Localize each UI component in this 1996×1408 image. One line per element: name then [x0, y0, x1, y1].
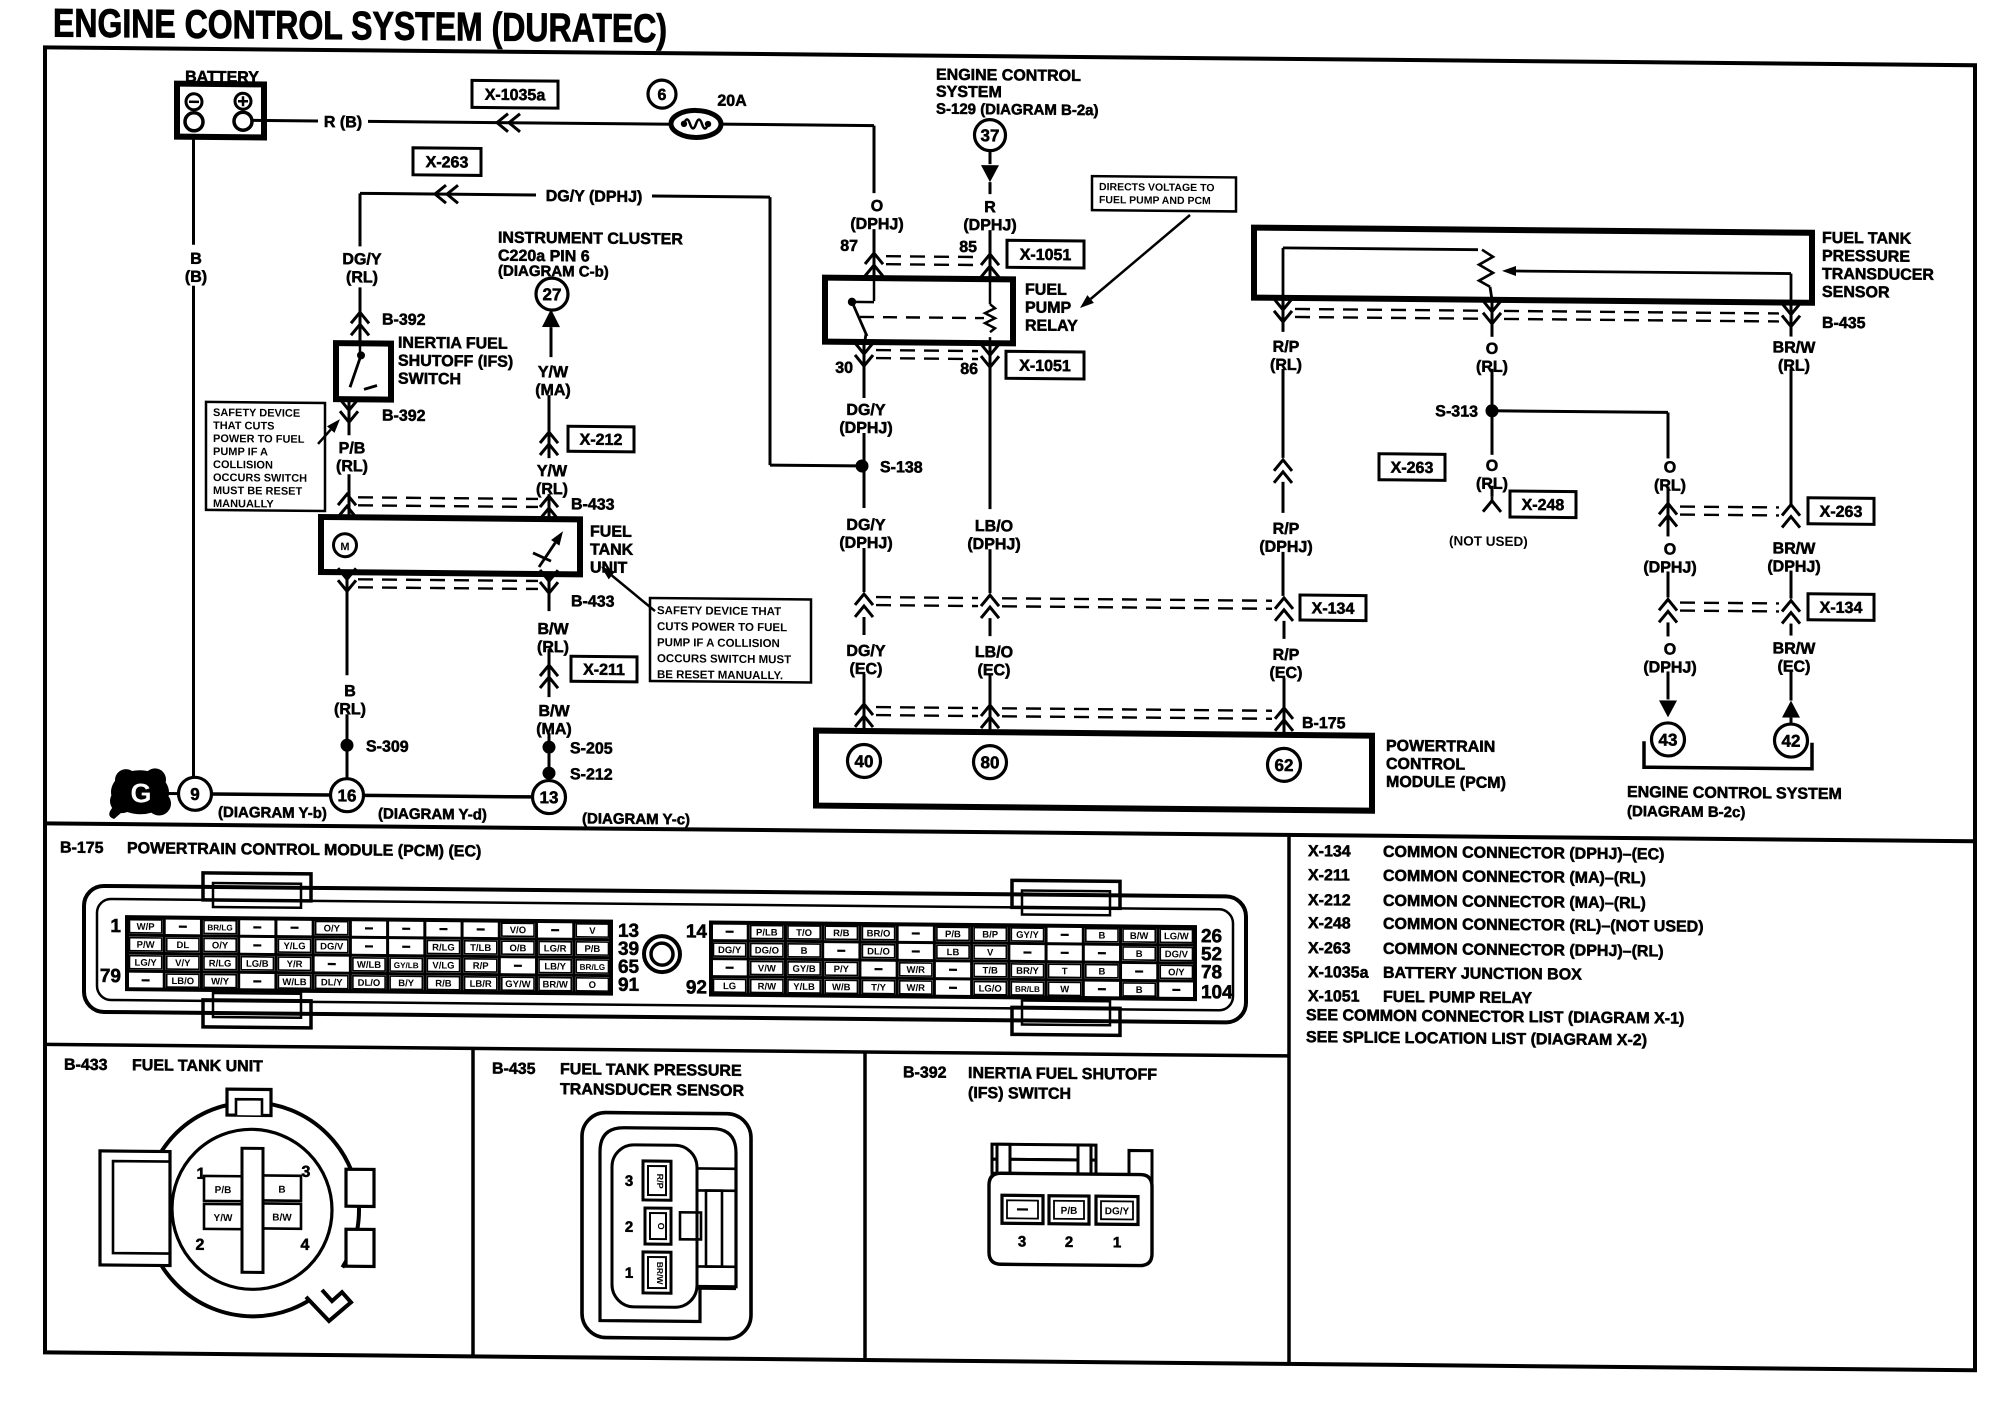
svg-text:DIRECTS VOLTAGE TO: DIRECTS VOLTAGE TO [1099, 181, 1215, 194]
divider below PCM pinout section [45, 1044, 1289, 1056]
svg-text:(DIAGRAM Y-d): (DIAGRAM Y-d) [378, 805, 487, 823]
svg-text:LB/R: LB/R [470, 979, 492, 990]
fuel tank unit box [321, 517, 580, 574]
wire label BR/W (EC) [1790, 624, 1793, 636]
svg-text:B-433: B-433 [571, 496, 615, 513]
svg-text:LG/W: LG/W [1164, 931, 1189, 942]
svg-text:43: 43 [1659, 730, 1678, 749]
svg-text:X-1051: X-1051 [1019, 358, 1071, 375]
svg-text:GY/Y: GY/Y [1016, 930, 1039, 941]
B-433 terminal Y/W [204, 1204, 242, 1229]
connector arrows X-1051 below relay [863, 342, 866, 398]
svg-text:GY/LB: GY/LB [394, 961, 419, 970]
B-392 terminal 1 DG/Y [1096, 1196, 1138, 1224]
dashed tie B-435 [1295, 309, 1480, 311]
svg-text:CUTS POWER TO FUEL: CUTS POWER TO FUEL [657, 621, 787, 634]
svg-text:TANK: TANK [590, 541, 634, 558]
callout: safety device note (left) [206, 402, 325, 511]
svg-text:O: O [1664, 459, 1676, 476]
svg-text:INSTRUMENT CLUSTER: INSTRUMENT CLUSTER [498, 230, 683, 249]
svg-text:POWERTRAIN CONTROL MODULE (PCM: POWERTRAIN CONTROL MODULE (PCM) (EC) [127, 840, 481, 860]
svg-text:(DPHJ): (DPHJ) [1767, 558, 1820, 575]
svg-text:B-435: B-435 [492, 1061, 536, 1078]
B-392 terminal 2 P/B [1049, 1196, 1089, 1224]
svg-text:COMMON CONNECTOR (MA)–(RL): COMMON CONNECTOR (MA)–(RL) [1383, 893, 1646, 912]
svg-text:V/O: V/O [510, 925, 526, 936]
label box X-1035a [472, 80, 558, 108]
splice S-205 [543, 741, 556, 754]
PCM connector top-right tab [1012, 880, 1120, 908]
svg-text:BR/W: BR/W [542, 979, 567, 990]
svg-text:X-211: X-211 [1308, 867, 1350, 884]
svg-text:B: B [344, 683, 356, 700]
engine control system pin circle 42 [1775, 724, 1808, 757]
B-433 right tabs [346, 1169, 374, 1206]
svg-text:X-263: X-263 [1820, 504, 1863, 521]
svg-text:R/W: R/W [758, 981, 776, 992]
ground connector circle 13 [533, 780, 566, 813]
svg-text:GY/W: GY/W [505, 979, 530, 990]
connector arrows X-212 [540, 432, 558, 443]
battery B+ B- symbol [177, 84, 264, 138]
svg-text:BR/W: BR/W [655, 1262, 665, 1286]
svg-text:BR/W: BR/W [1773, 540, 1817, 557]
svg-text:BR/W: BR/W [1773, 339, 1817, 356]
svg-text:(RL): (RL) [537, 639, 569, 656]
svg-text:SYSTEM: SYSTEM [936, 84, 1002, 102]
connector arrows B-435 below sensor [1282, 298, 1285, 332]
svg-text:S-129 (DIAGRAM B-2a): S-129 (DIAGRAM B-2a) [936, 101, 1099, 120]
svg-text:DG/Y: DG/Y [846, 517, 885, 534]
branch wire S-313 to O column [1492, 411, 1668, 413]
arrow from source down [989, 151, 992, 164]
svg-text:27: 27 [543, 285, 562, 304]
svg-text:W/LB: W/LB [282, 977, 306, 988]
svg-text:M: M [340, 541, 349, 553]
svg-text:62: 62 [1275, 756, 1294, 775]
svg-text:B/W: B/W [538, 703, 570, 720]
svg-text:(DPHJ): (DPHJ) [1643, 659, 1696, 676]
svg-text:91: 91 [618, 975, 640, 996]
connector arrows X-263 on DG/Y wire [435, 185, 446, 203]
svg-text:O: O [1664, 641, 1676, 658]
svg-text:SENSOR: SENSOR [1822, 284, 1890, 302]
svg-text:V: V [987, 948, 994, 959]
dashed connector tie B-433 top [358, 497, 538, 499]
svg-text:Y/W: Y/W [214, 1213, 233, 1224]
svg-text:DL/O: DL/O [867, 946, 890, 957]
svg-text:W/LB: W/LB [357, 960, 381, 971]
svg-text:B: B [1098, 967, 1105, 978]
svg-text:T/LB: T/LB [470, 943, 491, 954]
svg-text:B/W: B/W [272, 1213, 292, 1224]
svg-text:92: 92 [686, 977, 707, 998]
PCM connector bottom-left tab [203, 1000, 311, 1028]
label box X-263 top [413, 148, 481, 176]
svg-text:G: G [130, 778, 151, 808]
svg-text:LB/O: LB/O [171, 976, 194, 987]
svg-text:LG/R: LG/R [544, 943, 567, 954]
svg-text:1: 1 [625, 1265, 633, 1282]
svg-text:6: 6 [658, 87, 667, 104]
connector arrows X-134 pair right [1659, 599, 1677, 610]
callout arrow to relay [1091, 214, 1190, 300]
svg-text:MANUALLY: MANUALLY [213, 498, 274, 511]
svg-text:SHUTOFF (IFS): SHUTOFF (IFS) [398, 353, 513, 371]
svg-text:B: B [190, 251, 202, 268]
svg-text:FUEL PUMP AND PCM: FUEL PUMP AND PCM [1099, 194, 1211, 207]
svg-text:3: 3 [302, 1164, 311, 1181]
svg-text:FUEL TANK: FUEL TANK [1822, 230, 1912, 248]
svg-text:T/O: T/O [796, 928, 812, 939]
svg-text:OCCURS SWITCH MUST: OCCURS SWITCH MUST [657, 653, 791, 666]
svg-text:B-175: B-175 [60, 840, 104, 857]
svg-text:O/Y: O/Y [212, 940, 229, 951]
divider below wiring section [45, 823, 1975, 841]
svg-text:MUST BE RESET: MUST BE RESET [213, 485, 303, 498]
svg-text:B: B [278, 1185, 285, 1196]
svg-text:1: 1 [110, 916, 121, 937]
splice S-309 [341, 739, 354, 752]
svg-text:R/P: R/P [655, 1174, 665, 1189]
wire label R/P (EC) [1283, 621, 1286, 639]
svg-text:R/B: R/B [833, 928, 849, 939]
dashed tie X-1051 bottom [876, 349, 978, 352]
svg-text:T/Y: T/Y [871, 982, 886, 993]
svg-text:(DPHJ): (DPHJ) [1259, 539, 1312, 556]
svg-text:(DPHJ): (DPHJ) [850, 216, 903, 233]
svg-text:(EC): (EC) [978, 662, 1011, 679]
svg-text:P/B: P/B [945, 929, 961, 940]
svg-text:X-263: X-263 [426, 154, 469, 171]
svg-text:PUMP IF A: PUMP IF A [213, 446, 268, 459]
svg-text:O: O [1664, 541, 1676, 558]
callout: safety device note (right) [650, 598, 811, 682]
svg-text:RELAY: RELAY [1025, 317, 1078, 334]
svg-text:B: B [1136, 985, 1143, 996]
label box X-134 [1300, 595, 1366, 621]
svg-text:S-309: S-309 [366, 738, 409, 755]
svg-text:(EC): (EC) [1270, 665, 1303, 682]
splice S-138 [856, 459, 869, 472]
svg-text:R/P: R/P [1273, 339, 1300, 356]
B-433 left mount tab [100, 1151, 170, 1266]
svg-text:TRANSDUCER SENSOR: TRANSDUCER SENSOR [560, 1081, 744, 1100]
svg-text:R: R [984, 199, 996, 216]
svg-text:80: 80 [981, 753, 1000, 772]
connector arrows B-433 below fuel tank unit [346, 572, 349, 675]
B-433 terminal P/B [204, 1176, 242, 1201]
ground rail wire [212, 794, 330, 795]
arrow up from circle 42 [1782, 700, 1800, 717]
ground connector circle 9 [179, 777, 212, 810]
svg-text:R/LG: R/LG [209, 958, 232, 969]
svg-text:B-392: B-392 [382, 408, 426, 425]
svg-text:COLLISION: COLLISION [213, 459, 273, 472]
wire battery negative to ground: B (B) [192, 137, 195, 245]
svg-text:B: B [1098, 931, 1105, 942]
svg-text:ENGINE CONTROL SYSTEM (DURATEC: ENGINE CONTROL SYSTEM (DURATEC) [53, 1, 667, 51]
svg-text:DG/Y: DG/Y [1105, 1206, 1130, 1217]
svg-text:BR/O: BR/O [867, 928, 891, 939]
wire label LB/O (EC) [989, 618, 992, 636]
svg-text:W/R: W/R [907, 965, 926, 976]
svg-text:LG/Y: LG/Y [135, 958, 158, 969]
svg-text:INERTIA FUEL: INERTIA FUEL [398, 335, 508, 353]
svg-text:OCCURS SWITCH: OCCURS SWITCH [213, 472, 307, 485]
svg-text:B-433: B-433 [571, 593, 615, 610]
svg-text:O/Y: O/Y [1168, 967, 1185, 978]
svg-text:BE RESET MANUALLY.: BE RESET MANUALLY. [657, 669, 783, 682]
svg-text:30: 30 [835, 360, 853, 377]
label box X-134 right [1808, 594, 1874, 621]
wire DG/Y (RL) down to IFS switch [359, 193, 362, 246]
svg-text:S-313: S-313 [1435, 403, 1478, 420]
svg-text:V/W: V/W [758, 963, 776, 974]
fuel level sender symbol [539, 543, 555, 568]
svg-text:SEE SPLICE LOCATION LIST (DIA: SEE SPLICE LOCATION LIST (DIAGRAM X-2) [1306, 1029, 1647, 1049]
B-435 connector drawing outer [582, 1112, 751, 1339]
svg-text:B/P: B/P [982, 929, 998, 940]
svg-text:COMMON CONNECTOR (DPHJ)–(RL): COMMON CONNECTOR (DPHJ)–(RL) [1383, 941, 1664, 961]
PCM connector bolt circle [644, 936, 680, 972]
svg-text:2: 2 [625, 1219, 633, 1236]
svg-text:(IFS) SWITCH: (IFS) SWITCH [968, 1085, 1071, 1103]
svg-text:(DIAGRAM Y-b): (DIAGRAM Y-b) [218, 804, 327, 822]
svg-text:LB/O: LB/O [975, 644, 1013, 661]
svg-text:(RL): (RL) [536, 481, 568, 498]
connector arrows X-1035a on R(B) wire [497, 114, 508, 132]
svg-text:V/Y: V/Y [175, 958, 191, 969]
svg-text:P/Y: P/Y [834, 964, 850, 975]
B-435 latch features [697, 1167, 736, 1170]
svg-text:INERTIA FUEL SHUTOFF: INERTIA FUEL SHUTOFF [968, 1065, 1157, 1084]
svg-text:B/Y: B/Y [398, 978, 414, 989]
svg-text:(RL): (RL) [336, 458, 368, 475]
fuse circuit number circle 6 [648, 80, 676, 108]
svg-text:(NOT USED): (NOT USED) [1449, 533, 1528, 549]
fuel tank pressure transducer sensor box [1254, 228, 1812, 303]
svg-text:COMMON CONNECTOR (MA)–(RL): COMMON CONNECTOR (MA)–(RL) [1383, 868, 1646, 887]
svg-text:Y/R: Y/R [287, 959, 303, 970]
PCM connector top-left tab [203, 873, 311, 901]
svg-text:B-175: B-175 [1302, 715, 1346, 732]
svg-text:P/B: P/B [215, 1185, 232, 1196]
svg-text:W/P: W/P [137, 922, 156, 933]
svg-text:X-134: X-134 [1820, 600, 1863, 617]
svg-text:(B): (B) [185, 269, 207, 286]
svg-text:PUMP: PUMP [1025, 299, 1072, 316]
label box X-263 right [1808, 498, 1874, 525]
label box X-248 [1510, 491, 1576, 518]
svg-text:(RL): (RL) [1778, 357, 1810, 374]
svg-text:SWITCH: SWITCH [398, 371, 461, 389]
svg-text:(DIAGRAM B-2c): (DIAGRAM B-2c) [1627, 803, 1745, 821]
svg-text:(RL): (RL) [334, 701, 366, 718]
svg-text:P/B: P/B [584, 944, 600, 955]
B-433 connector drawing [100, 1088, 374, 1322]
svg-text:THAT CUTS: THAT CUTS [213, 420, 275, 433]
svg-text:78: 78 [1201, 962, 1222, 983]
connector arrows B-392 below IFS switch [348, 399, 351, 435]
svg-text:DL/O: DL/O [358, 978, 381, 989]
svg-text:B-392: B-392 [382, 312, 426, 329]
svg-text:MODULE (PCM): MODULE (PCM) [1386, 774, 1506, 792]
svg-text:3: 3 [625, 1173, 633, 1190]
bracket under 43/42 [1644, 741, 1812, 769]
svg-text:40: 40 [855, 752, 874, 771]
svg-text:O: O [871, 198, 883, 215]
wire ground to connector 9 [167, 792, 179, 795]
svg-text:V: V [589, 926, 596, 937]
connector arrows X-134 on PCM wires [855, 594, 873, 605]
splice S-212 [543, 767, 556, 780]
svg-text:(EC): (EC) [1778, 658, 1811, 675]
B-433 top key tab [227, 1089, 271, 1115]
svg-text:DL: DL [177, 940, 190, 951]
label box X-1051 top [1007, 240, 1084, 268]
svg-text:X-1035a: X-1035a [1308, 964, 1369, 982]
svg-text:DG/O: DG/O [755, 945, 779, 956]
svg-text:X-263: X-263 [1308, 940, 1351, 957]
bottom section divider 2 [863, 1052, 867, 1360]
svg-text:R/LG: R/LG [432, 942, 455, 953]
ground symbol G [109, 768, 171, 820]
svg-text:(DPHJ): (DPHJ) [967, 536, 1020, 553]
connector arrows B-392 above IFS switch [351, 312, 369, 323]
svg-text:T: T [1062, 966, 1068, 977]
svg-text:1: 1 [1113, 1234, 1121, 1251]
B-435 connector middle shell [600, 1128, 736, 1322]
svg-text:ENGINE CONTROL: ENGINE CONTROL [936, 67, 1081, 85]
label box X-211 [571, 656, 637, 682]
engine control system pin circle 43 [1652, 723, 1685, 756]
svg-text:(DPHJ): (DPHJ) [839, 535, 892, 552]
svg-text:4: 4 [301, 1237, 310, 1254]
svg-text:X-1051: X-1051 [1020, 247, 1072, 264]
wire label DG/Y (EC) [863, 617, 866, 635]
svg-text:LG/B: LG/B [246, 959, 269, 970]
B-435 pin 2 terminal O [645, 1208, 671, 1244]
svg-text:14: 14 [686, 921, 708, 942]
fuel pump motor M symbol [334, 534, 357, 557]
svg-text:2: 2 [1065, 1234, 1073, 1251]
svg-text:85: 85 [959, 239, 977, 256]
dashed connector tie B-433 bottom [358, 579, 538, 581]
svg-text:B-392: B-392 [903, 1064, 947, 1081]
ground connector circle 16 [331, 779, 364, 812]
inertia fuel shutoff switch box [336, 343, 391, 400]
svg-text:B: B [801, 946, 808, 957]
connector arrows B-433 above fuel tank unit [338, 494, 356, 505]
svg-text:DG/V: DG/V [320, 941, 344, 952]
callout: directs voltage to fuel pump and pcm [1092, 176, 1236, 211]
wire branch down to S-138 [769, 197, 772, 465]
svg-text:B/W: B/W [537, 621, 569, 638]
svg-text:DL/Y: DL/Y [321, 977, 343, 988]
sensor potentiometer symbol [1282, 248, 1285, 298]
connector arrows X-1051 above relay [865, 253, 883, 264]
svg-text:ENGINE CONTROL SYSTEM: ENGINE CONTROL SYSTEM [1627, 784, 1842, 803]
svg-text:DG/V: DG/V [1165, 949, 1189, 960]
svg-text:CONTROL: CONTROL [1386, 756, 1465, 774]
bottom section divider 1 [471, 1048, 475, 1356]
svg-text:13: 13 [540, 788, 559, 807]
svg-text:W/Y: W/Y [211, 976, 230, 987]
B-435 pin 3 terminal R/P [643, 1161, 671, 1200]
dashed tie B-175 [876, 706, 978, 709]
svg-text:(MA): (MA) [535, 382, 571, 399]
connector arrows X-263 on R/P wire [1274, 460, 1292, 471]
right column divider [1287, 835, 1291, 1364]
svg-text:BR/LB: BR/LB [1015, 985, 1040, 994]
svg-text:S-205: S-205 [570, 740, 613, 757]
svg-text:GY/B: GY/B [792, 964, 815, 975]
svg-text:FUEL: FUEL [1025, 281, 1067, 298]
svg-text:BATTERY JUNCTION BOX: BATTERY JUNCTION BOX [1383, 965, 1582, 984]
B-392 body [989, 1173, 1152, 1266]
svg-text:R (B): R (B) [324, 114, 362, 131]
PCM pin circle 62 [1268, 748, 1301, 781]
svg-text:O: O [1486, 341, 1498, 358]
svg-text:BR/Y: BR/Y [1016, 966, 1039, 977]
svg-text:TRANSDUCER: TRANSDUCER [1822, 266, 1934, 284]
svg-text:BR/LG: BR/LG [580, 963, 605, 972]
dashed tie X-134 right [1680, 601, 1779, 604]
callout arrow to fuel tank unit [612, 576, 655, 612]
label box X-1051 bottom [1006, 351, 1084, 379]
B-392 connector drawing [989, 1144, 1152, 1266]
svg-text:LB/Y: LB/Y [544, 961, 566, 972]
connector arrow X-248 (not used) [1491, 497, 1494, 501]
svg-text:DG/Y: DG/Y [846, 402, 885, 419]
svg-text:COMMON CONNECTOR (DPHJ)–(EC): COMMON CONNECTOR (DPHJ)–(EC) [1383, 844, 1664, 864]
svg-text:PUMP IF A COLLISION: PUMP IF A COLLISION [657, 637, 780, 650]
instrument cluster pin circle 27 [536, 278, 568, 310]
B-433 terminal B [263, 1175, 301, 1200]
svg-text:(DPHJ): (DPHJ) [1643, 559, 1696, 576]
B-435 pin 1 terminal BR/W [643, 1252, 671, 1293]
svg-text:POWER TO FUEL: POWER TO FUEL [213, 433, 305, 446]
svg-text:(RL): (RL) [1270, 357, 1302, 374]
B-435 terminal housing [612, 1145, 697, 1308]
svg-text:FUEL: FUEL [590, 523, 632, 540]
splice S-313 [1486, 404, 1499, 417]
svg-text:W/B: W/B [832, 982, 851, 993]
svg-text:(DPHJ): (DPHJ) [839, 420, 892, 437]
svg-text:P/B: P/B [339, 440, 366, 457]
svg-text:Y/W: Y/W [538, 364, 569, 381]
svg-text:79: 79 [100, 966, 121, 987]
svg-text:X-248: X-248 [1522, 497, 1565, 514]
svg-text:DG/Y: DG/Y [342, 251, 381, 268]
svg-text:R/P: R/P [1273, 647, 1300, 664]
B-433 center bar [242, 1148, 263, 1272]
svg-text:O: O [656, 1223, 666, 1230]
label box X-263 (R/P) [1379, 454, 1445, 481]
arrow down to circle 43 [1667, 671, 1670, 699]
svg-text:87: 87 [840, 238, 858, 255]
svg-text:LG/O: LG/O [979, 983, 1002, 994]
source circle 37 [975, 120, 1006, 151]
svg-text:B/W: B/W [1130, 931, 1148, 942]
svg-text:P/W: P/W [137, 940, 155, 951]
B-392 right hook [1129, 1150, 1152, 1190]
svg-text:SAFETY DEVICE THAT: SAFETY DEVICE THAT [657, 605, 781, 618]
callout arrow to IFS switch [318, 429, 331, 444]
svg-text:X-212: X-212 [1308, 892, 1351, 909]
svg-text:B-433: B-433 [64, 1057, 108, 1074]
